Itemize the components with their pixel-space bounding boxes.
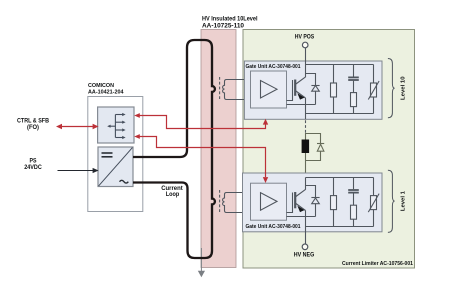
driver amplifier triangle (level 10) <box>261 81 278 99</box>
snubber resistor R1 (level 10) <box>331 65 337 114</box>
gate driver box (level 1) <box>251 183 287 220</box>
series choke (black rectangle) <box>302 140 310 154</box>
svg-text:HV POS: HV POS <box>295 34 315 41</box>
IGBT emitter arrowhead (level 1) <box>297 206 304 212</box>
driver amplifier triangle (level 1) <box>261 193 278 211</box>
DC/AC converter symbol <box>99 148 133 186</box>
DC/AC converter box U2 <box>98 147 133 187</box>
fan-out symbol inside U1 <box>109 115 123 138</box>
PS 24VDC arrow <box>58 168 99 173</box>
CTRL red line to gate unit level 10 <box>134 113 268 128</box>
COMICON module outer box <box>88 97 143 212</box>
snubber capacitor C2 (level 1) <box>348 178 359 227</box>
svg-text:Level 10: Level 10 <box>401 76 407 100</box>
svg-text:COMICON: COMICON <box>88 83 114 89</box>
svg-text:AA-10421-204: AA-10421-204 <box>88 89 124 95</box>
svg-text:(FO): (FO) <box>27 124 39 131</box>
HV NEG terminal <box>305 232 307 244</box>
transformer core (dashed) level 1 <box>219 190 221 214</box>
CTRL red line to gate unit level 1 <box>134 134 268 183</box>
svg-text:HV Insulated 10Level: HV Insulated 10Level <box>202 17 258 23</box>
gate driver box (level 10) <box>251 71 287 108</box>
snubber resistor R4 (level 1) <box>351 205 357 219</box>
varistor RV2 (level 1) <box>368 178 379 227</box>
svg-text:Gate Unit AC-30748-001: Gate Unit AC-30748-001 <box>246 64 301 70</box>
snubber resistor R3 (level 1) <box>331 178 337 227</box>
snubber resistor R2 (level 10) <box>351 93 357 107</box>
negative rail (level 1) <box>306 226 374 228</box>
bypass diode D5 <box>317 144 324 152</box>
varistor RV1 (level 10) <box>368 65 379 114</box>
svg-text:HV NEG: HV NEG <box>294 252 315 259</box>
negative rail (level 10) <box>306 113 374 115</box>
signal distributor box U1 <box>98 107 134 143</box>
IGBT Q10 (level 10) <box>287 65 316 120</box>
svg-text:24VDC: 24VDC <box>24 164 42 171</box>
transformer secondary coil level 10 <box>223 80 251 100</box>
IGBT Q1 (level 1) <box>287 178 316 233</box>
svg-text:AA-10725-110: AA-10725-110 <box>202 24 245 30</box>
transformer secondary coil level 1 <box>223 193 251 213</box>
snubber capacitor C1 (level 10) <box>348 65 359 114</box>
link node wiring <box>306 133 321 178</box>
positive rail (level 1) <box>306 177 374 179</box>
current loop wire (primary winding loop) <box>133 40 215 258</box>
free-wheeling diode D1 <box>306 186 320 217</box>
svg-text:Gate Unit AC-30748-001: Gate Unit AC-30748-001 <box>246 224 301 230</box>
current limiter enclosure AC-10756-001 (green box) <box>243 30 415 269</box>
free-wheeling diode D10 <box>306 74 320 105</box>
gate unit level 10 outer box <box>244 61 382 119</box>
positive rail (level 10) <box>306 64 374 66</box>
IGBT emitter arrowhead (level 10) <box>297 93 304 99</box>
CTRL & SFB bidirectional red arrow <box>56 124 99 129</box>
svg-text:Loop: Loop <box>166 191 180 198</box>
barrier continuation arrow <box>198 248 205 277</box>
level 10 brace <box>388 59 395 118</box>
level 1 brace <box>388 170 395 232</box>
svg-text:Level 1: Level 1 <box>401 190 407 211</box>
transformer core (dashed) level 10 <box>219 77 221 101</box>
svg-text:Current Limiter AC-10756-001: Current Limiter AC-10756-001 <box>342 261 413 267</box>
HV insulation barrier AA-10725-110 (pink band) <box>201 30 236 268</box>
gate unit level 1 outer box <box>243 173 383 232</box>
link between levels: dashed emitter line <box>305 120 307 133</box>
